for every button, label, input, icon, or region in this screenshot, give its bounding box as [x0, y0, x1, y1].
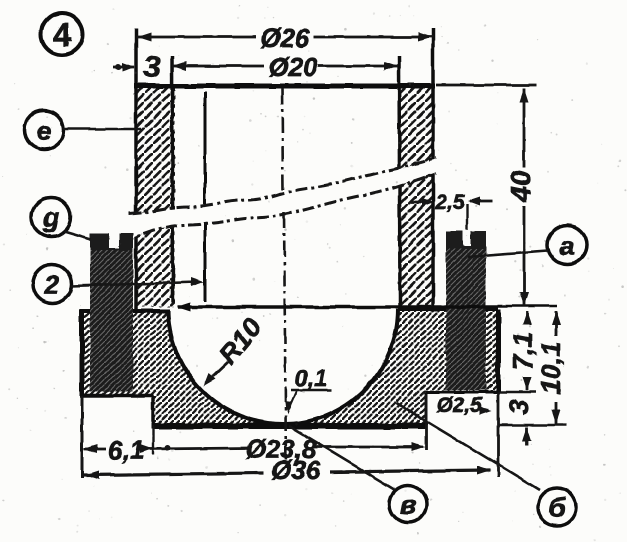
- callout d (left stud): [32, 198, 92, 240]
- cup outline edges: [80, 309, 498, 426]
- callout a (right stud): [468, 226, 587, 265]
- break band (conventional break): [124, 159, 436, 241]
- svg-text:40: 40: [505, 170, 536, 203]
- svg-text:7,1: 7,1: [508, 332, 538, 370]
- dimension d26: [136, 23, 433, 53]
- break line lower (wavy dash-dot): [122, 173, 436, 242]
- svg-text:б: б: [549, 493, 567, 523]
- sleeve left wall hatched: [136, 87, 175, 307]
- sleeve outer wall edges (also dim extension lines): [134, 28, 138, 309]
- svg-text:3: 3: [504, 399, 534, 414]
- svg-text:10,1: 10,1: [536, 342, 566, 395]
- callout e (sleeve): [25, 111, 142, 150]
- dimension 0,1: [285, 365, 332, 414]
- dimension 3 (bottom thickness): [504, 399, 534, 445]
- callout circle 4 (figure number): [41, 13, 83, 55]
- dimension 2,5 (stud): [411, 191, 493, 230]
- dimension d20: [172, 52, 398, 82]
- svg-text:3: 3: [143, 49, 160, 84]
- bottom extension lines: [81, 396, 84, 478]
- svg-text:Ø2,5: Ø2,5: [436, 394, 482, 417]
- svg-text:4: 4: [53, 16, 72, 53]
- extension lines right: [498, 391, 536, 393]
- dimension 6,1 and d23,8: [83, 434, 425, 465]
- top edge extension line right: [436, 84, 536, 87]
- right clamp stud (slotted): [446, 229, 486, 390]
- dimension d2,5 (stud dia): [436, 394, 492, 417]
- dimension d36: [82, 455, 491, 485]
- svg-text:2: 2: [43, 270, 59, 300]
- die cup body (matrix) hatched cross-section: [82, 310, 498, 425]
- svg-text:е: е: [36, 116, 51, 146]
- callout v (bottom gap): [289, 426, 427, 523]
- vertical centerline (dash-dot): [282, 88, 283, 190]
- dimension 40: [505, 88, 536, 306]
- dimension 10,1: [536, 311, 566, 424]
- svg-text:Ø36: Ø36: [271, 455, 321, 485]
- dimension 7,1: [508, 311, 538, 391]
- sleeve bore edges: [172, 56, 173, 302]
- sleeve right wall hatched: [399, 87, 433, 307]
- inner liner line: [204, 92, 207, 302]
- svg-text:6,1: 6,1: [108, 435, 144, 465]
- svg-text:а: а: [559, 231, 574, 261]
- svg-text:g: g: [42, 203, 60, 233]
- svg-text:0,1: 0,1: [295, 365, 327, 391]
- left clamp stud (slotted): [90, 231, 133, 392]
- svg-text:Ø20: Ø20: [268, 52, 318, 82]
- sleeve top edge: [134, 84, 435, 89]
- callout b (cup/matrix): [396, 403, 576, 526]
- cup mouth edge line with left arrow: [177, 303, 557, 312]
- dimension 3 (wall): [113, 49, 161, 84]
- cup spherical cavity R10 arc edge: [168, 309, 398, 424]
- svg-text:Ø26: Ø26: [260, 23, 310, 53]
- callout g (liner) with arrow: [33, 265, 205, 304]
- radius R10: [204, 313, 268, 386]
- break line upper (wavy dash-dot): [129, 158, 436, 214]
- svg-text:2,5: 2,5: [434, 191, 465, 214]
